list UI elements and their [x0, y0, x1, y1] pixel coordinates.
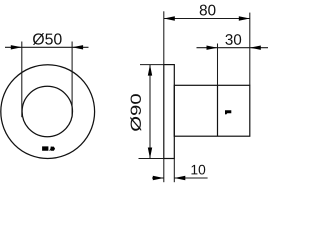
side view flange outline: [164, 65, 175, 159]
body internal vertical edge: [217, 85, 219, 136]
front view inner circle Ø50: [22, 86, 72, 136]
30 dimension extension (internal edge extended up): [217, 44, 219, 86]
30 label: [225, 34, 241, 45]
Ø90 extension line top: [140, 64, 164, 66]
80 arrow right: [239, 16, 250, 20]
Ø50 extension line right: [71, 42, 73, 118]
10 dimension line right tail: [174, 177, 207, 179]
Ø90 dimension line: [149, 65, 151, 159]
Ø90 extension line bottom: [139, 158, 164, 160]
Ø50 arrow right: [72, 45, 83, 49]
10 arrow left (outside): [153, 176, 164, 180]
logo mark inside front view: [42, 146, 55, 151]
Ø50 dimension line: [5, 46, 89, 48]
80 arrow left: [164, 16, 175, 20]
Ø50 extension line left: [21, 42, 23, 118]
30 arrow left (outside): [207, 46, 218, 50]
Ø90 arrow top: [148, 65, 152, 76]
front view outer circle Ø90: [1, 65, 95, 159]
30 arrow right (outside): [250, 46, 261, 50]
30 dimension line with outside tails: [197, 47, 269, 49]
Ø50 label: [33, 33, 62, 45]
10 dimension extension line right: [173, 159, 175, 183]
80 dimension extension line right / body edge extension: [249, 13, 251, 86]
Ø90 arrow bottom: [148, 148, 152, 159]
side view body outline: [174, 85, 250, 136]
80 dimension line: [164, 18, 250, 20]
tiny mark inside body: [225, 110, 231, 115]
80 dimension extension line left (above flange): [163, 11, 165, 64]
10 dimension line left tail: [152, 177, 164, 179]
10 label: [191, 165, 205, 175]
80 label: [200, 5, 216, 16]
Ø90 label (rotated): [130, 94, 141, 131]
Ø50 arrow left: [11, 45, 22, 49]
10 arrow right (outside): [174, 176, 185, 180]
10 dimension extension line left: [163, 159, 165, 183]
